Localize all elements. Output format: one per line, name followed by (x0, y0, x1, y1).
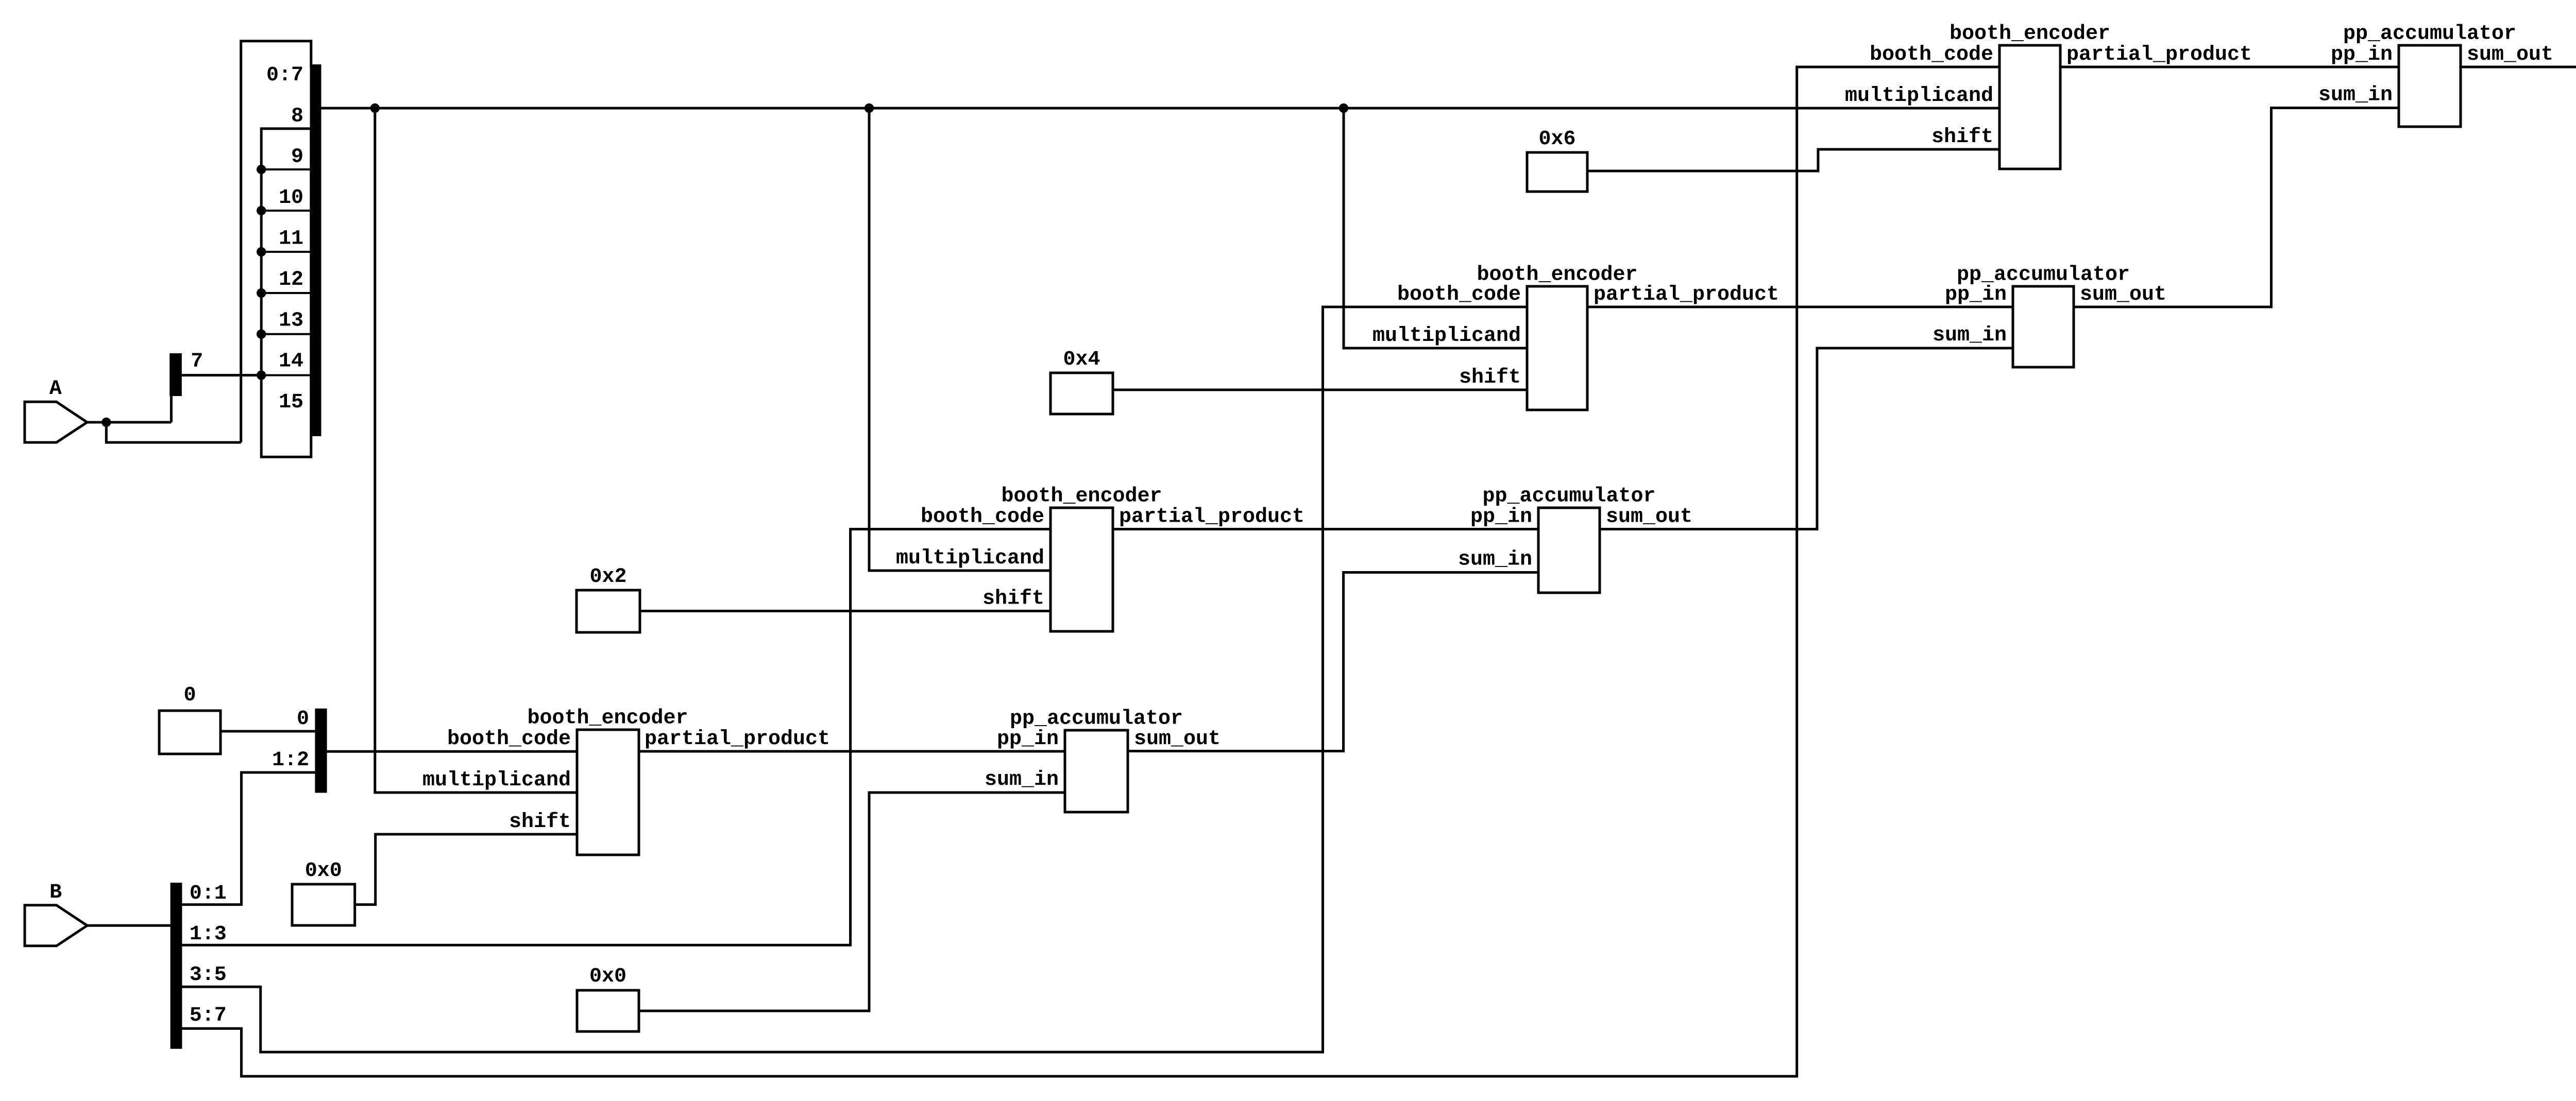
svg-text:sum_out: sum_out (1606, 506, 1692, 529)
svg-text:0x0: 0x0 (589, 965, 626, 988)
svg-text:sum_out: sum_out (2080, 283, 2166, 306)
svg-text:1:2: 1:2 (272, 749, 309, 772)
svg-text:multiplicand: multiplicand (1845, 84, 1993, 108)
svg-text:pp_accumulator: pp_accumulator (2343, 23, 2516, 46)
svg-text:15: 15 (279, 391, 303, 414)
svg-text:partial_product: partial_product (2066, 43, 2252, 66)
svg-text:sum_in: sum_in (1458, 548, 1532, 572)
svg-text:sum_in: sum_in (985, 768, 1059, 792)
svg-text:A: A (49, 377, 62, 401)
svg-text:B: B (49, 881, 62, 904)
svg-text:shift: shift (982, 588, 1044, 611)
svg-text:partial_product: partial_product (645, 728, 830, 751)
svg-text:8: 8 (291, 105, 303, 128)
svg-text:multiplicand: multiplicand (422, 769, 571, 792)
svg-text:booth_code: booth_code (447, 728, 571, 751)
svg-text:3:5: 3:5 (190, 964, 227, 987)
svg-text:11: 11 (279, 228, 303, 251)
svg-text:7: 7 (191, 350, 203, 373)
svg-text:sum_in: sum_in (2318, 84, 2393, 107)
svg-text:9: 9 (291, 146, 303, 169)
svg-text:booth_encoder: booth_encoder (527, 707, 688, 730)
svg-text:booth_encoder: booth_encoder (1950, 23, 2110, 46)
svg-text:shift: shift (1931, 126, 1993, 149)
svg-text:0:1: 0:1 (190, 882, 227, 905)
svg-text:sum_in: sum_in (1933, 324, 2007, 347)
svg-text:pp_in: pp_in (1470, 506, 1532, 529)
svg-text:booth_code: booth_code (921, 506, 1044, 529)
svg-text:partial_product: partial_product (1594, 283, 1779, 306)
svg-text:booth_code: booth_code (1397, 283, 1521, 306)
svg-text:booth_encoder: booth_encoder (1001, 485, 1162, 508)
svg-text:pp_in: pp_in (1945, 283, 2007, 306)
svg-text:10: 10 (279, 186, 303, 210)
svg-text:sum_out: sum_out (2467, 43, 2553, 66)
svg-text:shift: shift (509, 811, 571, 834)
svg-text:0x6: 0x6 (1538, 128, 1575, 151)
svg-text:multiplicand: multiplicand (896, 547, 1044, 570)
svg-text:pp_in: pp_in (2331, 43, 2393, 66)
svg-text:0x4: 0x4 (1063, 348, 1100, 371)
svg-text:pp_in: pp_in (997, 728, 1059, 751)
svg-text:booth_code: booth_code (1870, 43, 1993, 66)
svg-text:5:7: 5:7 (190, 1004, 227, 1027)
svg-text:1:3: 1:3 (190, 923, 227, 946)
svg-text:pp_accumulator: pp_accumulator (1010, 708, 1183, 731)
svg-text:multiplicand: multiplicand (1372, 324, 1521, 348)
svg-text:partial_product: partial_product (1119, 506, 1304, 529)
svg-text:0: 0 (297, 708, 309, 731)
svg-text:13: 13 (279, 309, 303, 332)
svg-text:0:7: 0:7 (266, 64, 303, 87)
svg-text:sum_out: sum_out (1134, 728, 1221, 751)
svg-text:12: 12 (279, 268, 303, 291)
svg-text:0x2: 0x2 (589, 565, 626, 589)
svg-text:14: 14 (279, 350, 303, 373)
svg-text:shift: shift (1459, 366, 1521, 389)
svg-text:pp_accumulator: pp_accumulator (1482, 485, 1655, 508)
svg-text:0x0: 0x0 (305, 859, 342, 883)
svg-text:0: 0 (183, 684, 196, 707)
